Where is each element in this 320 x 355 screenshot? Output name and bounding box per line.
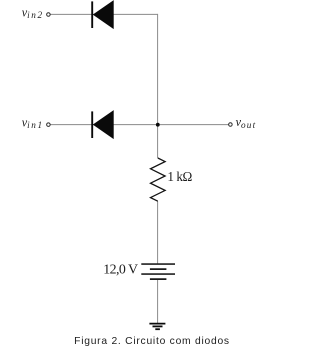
svg-text:vin1: vin1 bbox=[22, 115, 44, 130]
diode (v_in1 branch) bbox=[92, 111, 113, 138]
svg-text:1 kΩ: 1 kΩ bbox=[167, 169, 192, 184]
svg-text:vin2: vin2 bbox=[22, 5, 44, 20]
wire vertical rail (corner down to resistor) bbox=[157, 14, 159, 158]
wire battery to ground bbox=[157, 279, 159, 323]
ground bbox=[149, 324, 165, 330]
junction node bbox=[156, 123, 160, 127]
battery 12,0 V bbox=[141, 264, 175, 279]
svg-text:12,0 V: 12,0 V bbox=[103, 262, 138, 277]
diode (v_in2 branch) bbox=[92, 1, 113, 28]
wire middle rail (v_in1 to v_out) bbox=[50, 124, 229, 126]
wire resistor to battery bbox=[157, 201, 159, 264]
resistor 1 kOhm zigzag bbox=[151, 158, 166, 201]
wire top rail (v_in2 to corner) bbox=[50, 13, 158, 15]
terminal v_in1 bbox=[47, 123, 51, 127]
terminal v_out bbox=[229, 123, 233, 127]
svg-text:Figura 2. Circuito com diodos: Figura 2. Circuito com diodos bbox=[74, 336, 230, 347]
svg-text:vout: vout bbox=[236, 115, 257, 130]
terminal v_in2 bbox=[47, 13, 51, 17]
